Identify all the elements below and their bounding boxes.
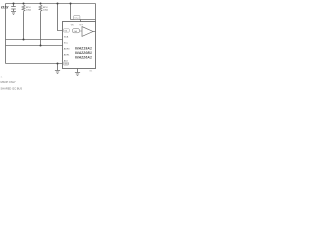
pin label VS left boxed [63, 29, 69, 32]
node C1 on rail [13, 3, 15, 5]
svg-text:GA: GA [74, 30, 78, 33]
ground symbol below IC [75, 73, 80, 76]
node VS drop on rail [57, 3, 59, 5]
svg-text:10kΩ: 10kΩ [43, 10, 49, 12]
wire ground branch stem [57, 64, 59, 71]
node dots [13, 3, 72, 65]
node R1 on SDA rail [23, 39, 25, 41]
wire VS pin drop [58, 4, 63, 31]
ground symbol bottom branch [55, 71, 60, 74]
svg-text:ADR0: ADR0 [64, 48, 71, 51]
resistor R1 [22, 5, 25, 13]
svg-text:INA220B1: INA220B1 [75, 51, 92, 55]
wire right supply drop into IC [95, 4, 97, 22]
wire bypass stub into IC [80, 20, 82, 22]
wire cap C1 stems [13, 4, 15, 12]
wire left supply drop [5, 4, 7, 64]
wire IC ground pin stem [77, 69, 79, 73]
gain block inside [73, 29, 80, 33]
wire R2 bottom [40, 13, 42, 46]
wire top supply rail [6, 3, 96, 5]
wire amp output [93, 31, 96, 33]
svg-text:MSOP ONLY: MSOP ONLY [1, 80, 16, 84]
wire gain block to amp [80, 30, 83, 32]
svg-text:RPU: RPU [43, 7, 48, 9]
ground below C1 [11, 12, 16, 15]
node R2 on rail [40, 3, 42, 5]
svg-text:SDA: SDA [64, 36, 69, 39]
node bypass drop on rail [70, 3, 72, 5]
bypass capacitor CBYP boxed label [74, 16, 80, 20]
capacitor C1 plates [11, 7, 16, 10]
node R2 on SCL rail [40, 45, 42, 47]
node ground branch [57, 63, 59, 65]
svg-text:ADR1: ADR1 [64, 54, 71, 57]
svg-text:VS 5V: VS 5V [1, 5, 9, 9]
svg-text:SHARED I2C BUS: SHARED I2C BUS [1, 87, 23, 91]
IC U1 box [63, 22, 96, 69]
op-amp A1 triangle [82, 27, 93, 37]
wire SDA rail [6, 39, 63, 41]
svg-text:10kΩ: 10kΩ [26, 10, 32, 12]
node R1 on rail [23, 3, 25, 5]
resistor R2 [39, 5, 42, 13]
wire bypass branch drop [70, 4, 72, 20]
wire bypass shelf [71, 19, 96, 21]
wire bottom ground rail [6, 63, 63, 65]
svg-text:GND: GND [64, 64, 69, 66]
wire SCL rail [6, 45, 63, 47]
svg-text:INA226A1: INA226A1 [75, 56, 92, 60]
pin label GND boxed [63, 62, 68, 65]
part list [75, 47, 92, 60]
wire R1 bottom [23, 13, 25, 40]
svg-text:RPU: RPU [26, 7, 31, 9]
background [0, 0, 100, 100]
svg-text:INA219A1: INA219A1 [75, 47, 92, 51]
